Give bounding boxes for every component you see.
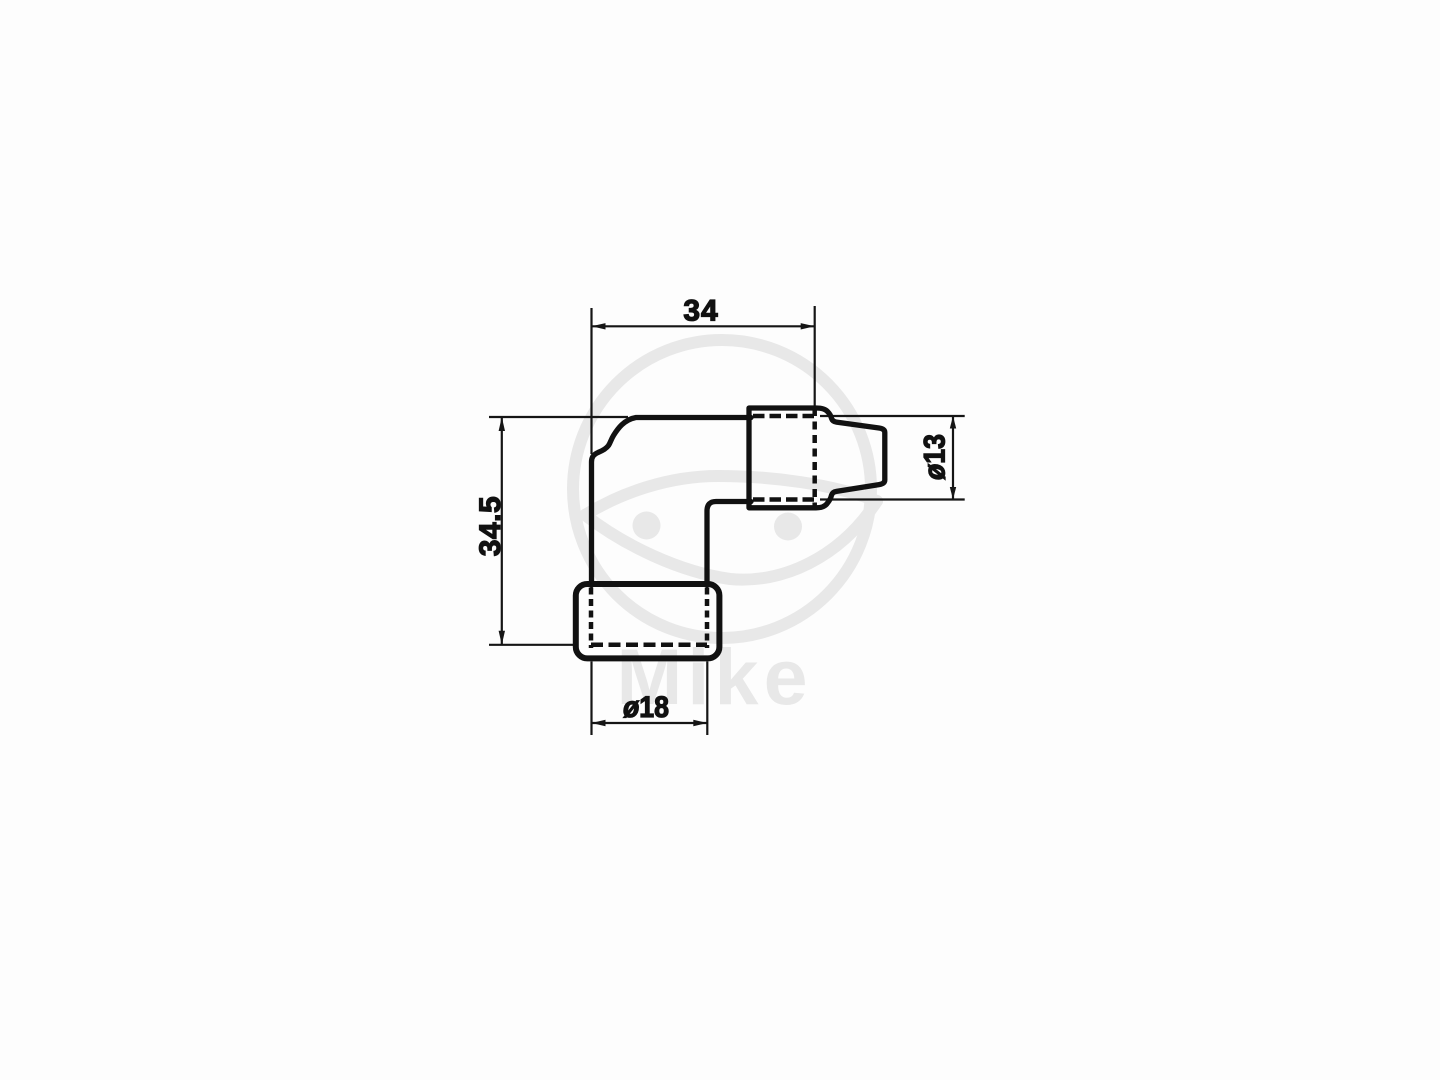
right cylinder outline <box>749 408 885 508</box>
watermark eye-mask upper edge <box>585 476 877 515</box>
boot (lower sleeve) <box>576 584 720 658</box>
svg-text:ø18: ø18 <box>623 691 669 724</box>
extension line 34.5 top <box>489 416 628 418</box>
body inner corner <box>707 502 751 586</box>
extension line top-right (34 dim, right) <box>814 306 816 407</box>
arrow 34.5 top <box>499 417 505 431</box>
dashed hole top (right cylinder) <box>753 414 819 419</box>
watermark eyes <box>633 512 803 541</box>
arrow 34.5 bottom <box>499 631 505 645</box>
extension line d13 bottom <box>820 498 965 500</box>
thin extension/dimension lines <box>489 306 965 735</box>
svg-text:ø13: ø13 <box>919 434 952 480</box>
arrow 34 left <box>592 323 606 329</box>
svg-text:34.5: 34.5 <box>474 496 507 556</box>
arrow d18 left <box>592 720 606 726</box>
extension line d18 right <box>706 662 708 736</box>
svg-text:34: 34 <box>683 295 718 328</box>
dashed boot hole right <box>705 588 710 649</box>
extension line d18 left <box>590 662 592 736</box>
dimension line d13 <box>952 416 954 500</box>
arrow 34 right <box>801 323 815 329</box>
dimension line 34.5 <box>501 417 503 645</box>
dashed hole bottom (right cylinder) <box>753 497 819 502</box>
hidden dashed lines <box>591 408 819 648</box>
cap body outline <box>576 408 885 658</box>
body left edge and top corner <box>592 418 752 586</box>
extension line 34.5 bottom <box>489 644 576 646</box>
dashed hole depth (right cylinder vertical) <box>812 408 817 508</box>
watermark logo circle <box>573 340 877 638</box>
watermark eye-mask lower edge <box>585 501 877 580</box>
dashed boot hole left <box>589 588 594 649</box>
dashed boot hole bottom <box>591 643 707 648</box>
extension line d13 top <box>820 415 965 417</box>
arrow d18 right <box>693 720 707 726</box>
dimension line d18 <box>592 722 708 724</box>
extension line top-left (34 dim, left) <box>590 308 592 454</box>
arrowheads <box>499 323 957 726</box>
arrow d13 bottom <box>950 487 956 500</box>
dimension line 34 <box>592 325 815 327</box>
arrow d13 top <box>950 416 956 429</box>
